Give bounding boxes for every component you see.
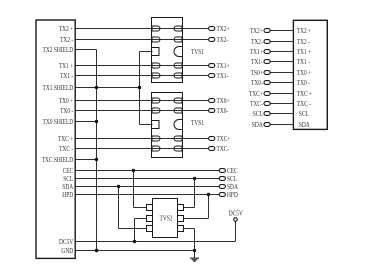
svg-text:TX1 SHIELD: TX1 SHIELD [43,85,74,92]
svg-text:TX2 -: TX2 - [297,39,311,46]
svg-text:TX0-: TX0- [251,80,263,87]
svg-text:TX2 -: TX2 - [60,37,74,44]
svg-text:SDA: SDA [227,184,238,191]
svg-text:SCL: SCL [227,176,237,183]
svg-text:TX0 -: TX0 - [60,108,74,115]
svg-text:TVS1: TVS1 [191,120,204,127]
svg-text:TX1-: TX1- [217,73,229,80]
svg-text:HPD: HPD [227,192,238,199]
svg-text:SCL: SCL [253,111,263,118]
svg-text:DC5V: DC5V [59,239,73,246]
svg-text:TVS2: TVS2 [160,216,173,223]
svg-text:TX2 +: TX2 + [297,28,312,35]
svg-text:SDA: SDA [62,184,73,191]
svg-text:TX0 SHIELD: TX0 SHIELD [43,119,74,126]
svg-text:TX0 +: TX0 + [59,98,74,105]
svg-text:CEC: CEC [227,168,238,175]
svg-text:TX2-: TX2- [251,39,263,46]
svg-text:TX1-: TX1- [251,59,263,66]
svg-text:TX2 SHIELD: TX2 SHIELD [43,47,74,54]
svg-text:TX2 +: TX2 + [59,26,74,33]
svg-text:DC5V: DC5V [229,211,243,218]
svg-text:TX2+: TX2+ [250,28,263,35]
svg-text:TX0 -: TX0 - [297,80,311,87]
svg-text:TXC -: TXC - [59,146,74,153]
svg-text:TS0+: TS0+ [251,70,263,77]
svg-text:CEC: CEC [63,168,74,175]
svg-text:TX1 -: TX1 - [60,73,74,80]
svg-text:TXC +: TXC + [58,136,73,143]
svg-text:TX1 -: TX1 - [297,59,311,66]
svg-text:TX0 +: TX0 + [297,70,312,77]
svg-text:TXC -: TXC - [297,101,312,108]
svg-text:TXC SHIELD: TXC SHIELD [42,157,74,164]
svg-text:TX0+: TX0+ [217,98,230,105]
svg-text:GND: GND [61,248,73,255]
svg-text:TXC +: TXC + [297,91,312,98]
svg-text:TXC+: TXC+ [217,136,231,143]
svg-text:HPD: HPD [62,192,73,199]
svg-text:SDA: SDA [299,122,310,129]
svg-text:SDA: SDA [252,122,263,129]
svg-text:TX1 +: TX1 + [297,49,312,56]
svg-text:TX1+: TX1+ [250,49,263,56]
svg-text:TVS1: TVS1 [191,49,204,56]
svg-text:SCL: SCL [63,176,73,183]
svg-text:TXC+: TXC+ [249,91,263,98]
svg-text:TXC-: TXC- [217,146,230,153]
svg-text:TX2+: TX2+ [217,26,230,33]
svg-text:TX0-: TX0- [217,108,229,115]
svg-text:TXC-: TXC- [250,101,263,108]
svg-text:TX1+: TX1+ [217,63,230,70]
svg-text:TX2-: TX2- [217,37,229,44]
svg-text:SCL: SCL [299,111,309,118]
svg-text:TX1 +: TX1 + [59,63,74,70]
